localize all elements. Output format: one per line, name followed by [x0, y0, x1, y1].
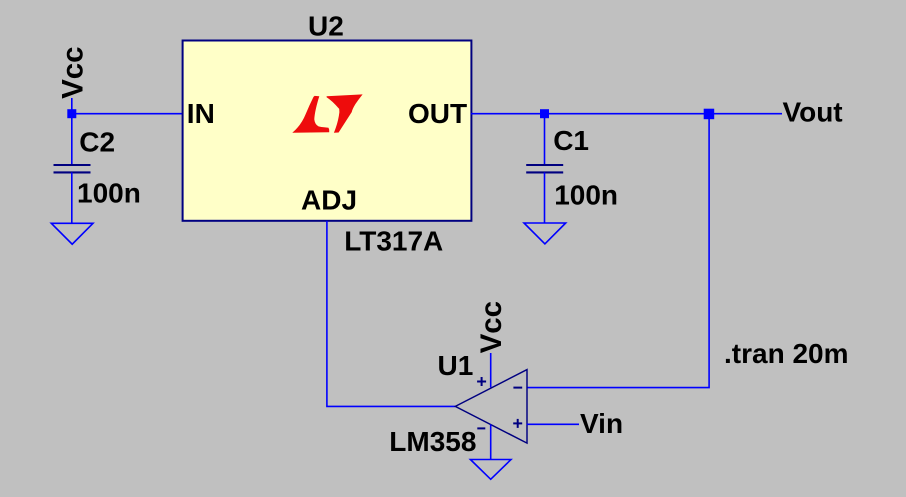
LT logo (red) inside U2 — [292, 94, 362, 132]
svg-text:U2: U2 — [308, 11, 344, 42]
svg-text:Vout: Vout — [783, 97, 843, 128]
wire junction down to C1 top plate — [544, 114, 546, 165]
svg-text:100n: 100n — [77, 178, 141, 209]
wire op-amp non-inverting input to Vin label — [527, 423, 579, 425]
svg-text:Vcc: Vcc — [475, 301, 508, 354]
svg-text:Vin: Vin — [580, 408, 623, 439]
wire from Vcc flag down to node A — [71, 98, 73, 114]
svg-text:.tran 20m: .tran 20m — [724, 338, 849, 369]
wire node A to IN pin of U2 — [72, 113, 183, 115]
capacitor C1 — [526, 165, 563, 172]
junction at C1 tap — [540, 109, 549, 118]
op-amp inverting input minus sign — [513, 387, 522, 389]
wire node A down to C2 top plate — [71, 114, 73, 165]
svg-text:IN: IN — [187, 98, 215, 129]
op-amp V- minus sign — [477, 427, 485, 429]
junction node A — [67, 109, 76, 118]
ground (under C1) — [524, 223, 566, 244]
svg-text:U1: U1 — [438, 350, 474, 381]
wire op-amp V- pin down to ground — [490, 424, 492, 459]
svg-text:LM358: LM358 — [389, 426, 476, 457]
wire ADJ pin of U2 down and right to op-amp output — [327, 221, 455, 407]
wire Vcc flag down to op-amp V+ pin — [490, 353, 492, 387]
svg-text:LT317A: LT317A — [344, 226, 443, 257]
svg-text:ADJ: ADJ — [301, 184, 357, 215]
svg-text:C1: C1 — [553, 125, 589, 156]
wire OUT pin of U2 to Vout label — [471, 113, 782, 115]
regulator U2 body (LT317A) — [183, 41, 472, 221]
op-amp U1 triangle — [455, 370, 527, 444]
svg-text:100n: 100n — [554, 180, 618, 211]
svg-text:OUT: OUT — [408, 98, 467, 129]
wire C1 bottom plate to ground — [544, 172, 546, 223]
capacitor C2 — [54, 165, 91, 172]
ground (under C2) — [51, 223, 93, 244]
op-amp V+ plus sign — [477, 377, 486, 386]
wire feedback junction down to op-amp inverting input — [527, 114, 709, 388]
wire C2 bottom plate to ground — [71, 172, 73, 223]
svg-text:C2: C2 — [79, 126, 115, 157]
junction at feedback tap — [704, 109, 715, 120]
ground (under op-amp) — [470, 460, 511, 480]
svg-text:Vcc: Vcc — [56, 46, 89, 99]
op-amp non-inverting input plus sign — [513, 419, 522, 428]
